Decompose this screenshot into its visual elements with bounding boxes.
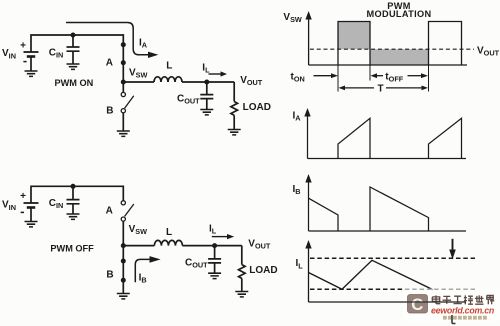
svg-text:IA: IA [139, 38, 148, 50]
svg-text:LOAD: LOAD [249, 265, 277, 276]
svg-text:IB: IB [139, 273, 147, 285]
svg-text:VIN: VIN [2, 48, 16, 60]
svg-text:B: B [106, 270, 113, 281]
svg-text:COUT: COUT [185, 257, 208, 269]
svg-text:CIN: CIN [49, 198, 64, 210]
svg-text:VSW: VSW [129, 224, 148, 236]
svg-text:PWM ON: PWM ON [55, 78, 94, 88]
svg-text:PWM OFF: PWM OFF [50, 243, 94, 253]
svg-text:VOUT: VOUT [248, 239, 271, 251]
svg-text:A: A [106, 57, 113, 68]
svg-text:+: + [20, 41, 26, 52]
svg-text:IL: IL [202, 63, 210, 75]
svg-text:tOFF: tOFF [385, 72, 403, 84]
svg-text:CIN: CIN [49, 48, 64, 60]
svg-text:IA: IA [293, 110, 302, 122]
svg-text:IL: IL [296, 258, 304, 270]
svg-text:tON: tON [291, 72, 305, 84]
svg-text:LOAD: LOAD [243, 102, 271, 113]
svg-text:VSW: VSW [129, 67, 148, 79]
svg-text:IL: IL [209, 224, 217, 236]
svg-text:T: T [378, 83, 384, 94]
svg-text:IB: IB [293, 184, 301, 196]
svg-text:eeworld.com.cn: eeworld.com.cn [431, 305, 494, 315]
svg-text:VOUT: VOUT [240, 75, 263, 87]
svg-text:VSW: VSW [283, 12, 302, 24]
svg-text:+: + [20, 191, 26, 202]
svg-text:L: L [166, 227, 172, 238]
svg-text:C: C [411, 295, 423, 314]
svg-text:VOUT: VOUT [477, 45, 500, 57]
svg-text:MODULATION: MODULATION [366, 9, 431, 19]
svg-text:A: A [106, 206, 113, 217]
svg-text:VIN: VIN [2, 200, 16, 212]
svg-text:COUT: COUT [177, 93, 200, 105]
svg-text:L: L [166, 60, 172, 71]
svg-text:B: B [106, 105, 113, 116]
